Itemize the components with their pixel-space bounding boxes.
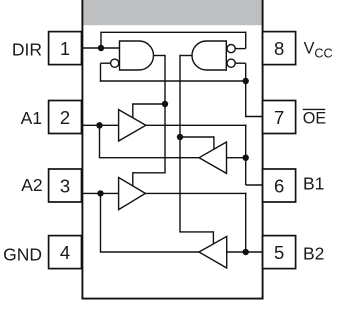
svg-text:OE: OE xyxy=(303,109,327,127)
junction B1 node xyxy=(243,155,249,161)
wire B1 into pin 6 xyxy=(246,184,263,186)
wire DIR drop to U1B top bubble xyxy=(245,32,247,49)
wire B1 into buffer2 input xyxy=(224,157,246,159)
wire A2 to buffer4 output xyxy=(100,251,200,253)
svg-text:2: 2 xyxy=(60,107,70,128)
pin 2 box xyxy=(49,101,82,134)
wire DIR top horizontal run to right xyxy=(100,31,246,33)
wire OE long horizontal run to left gate xyxy=(100,80,247,82)
wire U1B output vertical bus xyxy=(179,55,181,232)
AND gate U1B (mirrored) xyxy=(192,41,226,70)
buffer 1 (A1 to B1) xyxy=(119,110,146,141)
AND gate U1A xyxy=(120,41,154,70)
wire A1 to buffer2 output xyxy=(99,157,200,159)
inverting bubble U1B input from OE xyxy=(227,59,235,67)
pin 7 box xyxy=(263,101,296,134)
svg-text:A2: A2 xyxy=(21,175,42,195)
wire B2 vertical drop to pin 5 level xyxy=(245,193,247,252)
svg-text:4: 4 xyxy=(60,242,70,263)
svg-text:GND: GND xyxy=(3,244,42,264)
svg-text:7: 7 xyxy=(274,107,284,128)
wire OE riser up to U1B bottom bubble xyxy=(245,63,247,117)
wire U1A output stub xyxy=(153,55,166,57)
wire enable drop onto buffer 4 xyxy=(212,231,214,245)
pin 1 box xyxy=(49,32,82,65)
overline for OE xyxy=(303,108,325,110)
junction A1 node xyxy=(96,122,102,128)
svg-text:1: 1 xyxy=(60,38,70,59)
buffer 3 (A2 to B2) xyxy=(119,178,146,210)
wire A1: pin2 to buffer1 input xyxy=(82,124,122,126)
wire enable branch to buffer 4 xyxy=(179,231,213,233)
wire B1: buffer1 output run right xyxy=(145,124,246,126)
buffer 2 (B1 to A1) xyxy=(199,142,226,173)
wire U1B output stub xyxy=(180,55,193,57)
pin 3 box xyxy=(49,169,82,202)
junction A2 node xyxy=(97,190,103,196)
wire enable branch to buffer 1 xyxy=(133,103,166,105)
svg-text:5: 5 xyxy=(274,242,284,263)
pin 4 box xyxy=(49,236,82,269)
wire enable branch to buffer 2 xyxy=(179,136,214,138)
svg-text:8: 8 xyxy=(274,38,284,59)
wire B1 vertical drop to pin 6 level xyxy=(245,125,247,185)
wire into U1B top bubble xyxy=(232,48,246,50)
pin 6 box xyxy=(263,169,296,202)
wire A1 drop from junction xyxy=(99,125,101,158)
wire into U1A bubble xyxy=(101,62,115,64)
wire OE: pin7 leftward xyxy=(246,116,263,118)
buffer 4 (B2 to A2) xyxy=(199,236,227,268)
junction DIR node xyxy=(98,45,104,51)
wire enable branch to buffer 3 xyxy=(133,172,166,174)
svg-text:3: 3 xyxy=(60,175,70,196)
wire B2: buffer3 output run right xyxy=(145,192,247,194)
svg-text:DIR: DIR xyxy=(12,39,42,59)
svg-text:B2: B2 xyxy=(303,243,324,263)
IC package body outline xyxy=(82,0,262,299)
svg-text:6: 6 xyxy=(274,175,284,196)
wire U1A output vertical bus xyxy=(164,55,166,173)
wire OE riser up to U1A bubble xyxy=(100,63,102,81)
wire enable drop onto buffer 3 xyxy=(132,172,134,186)
wire enable drop onto buffer 1 xyxy=(132,103,134,118)
wire B2 into buffer4 input xyxy=(224,251,246,253)
wire B2 into pin 5 xyxy=(246,251,263,253)
wire DIR branch up from junction xyxy=(100,32,102,48)
inverting bubble U1B input from DIR xyxy=(227,45,235,53)
IC top band (package polarity mark) xyxy=(82,0,263,25)
wire A2: pin3 to buffer3 input xyxy=(82,192,122,194)
pin 5 box xyxy=(263,236,296,269)
svg-text:B1: B1 xyxy=(303,174,324,194)
pin 8 box xyxy=(263,32,296,65)
wire A2 drop from junction xyxy=(100,193,102,252)
junction U1A output / buffer1 enable xyxy=(162,101,168,107)
wire into U1B bottom bubble xyxy=(232,62,246,64)
junction B2 node xyxy=(243,249,249,255)
inverting bubble U1A enable input xyxy=(111,59,119,67)
wire DIR: pin1 to gate U1A input A xyxy=(82,47,122,49)
wire enable drop onto buffer 2 xyxy=(213,136,215,150)
svg-text:A1: A1 xyxy=(21,108,42,128)
junction U1B output / buffer2 enable xyxy=(177,134,183,140)
junction OE node right xyxy=(243,78,249,84)
